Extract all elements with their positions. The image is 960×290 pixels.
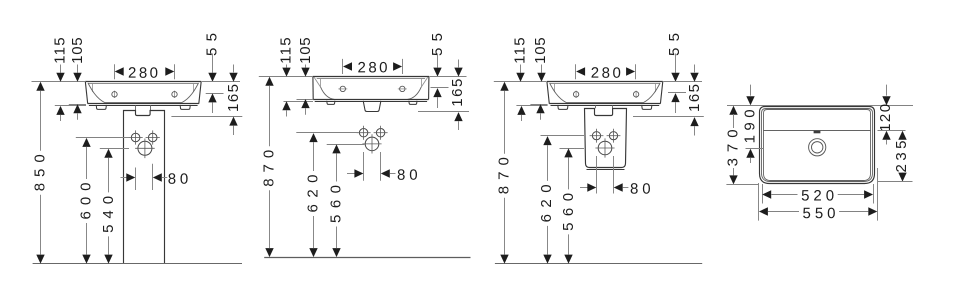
v3 dim 560 line upper bbox=[568, 157, 570, 189]
v3 dim 105 top arrow bbox=[537, 73, 545, 82]
v4 bowl deck line bbox=[763, 130, 871, 132]
svg-text:235: 235 bbox=[893, 141, 910, 173]
v2 ext line 115 bbox=[284, 101, 314, 103]
v1 dim 55 bottom arrow bbox=[208, 93, 216, 102]
v1 floor line bbox=[33, 263, 242, 265]
v3 dim 620 top arrow bbox=[543, 136, 551, 145]
v2 rim inner line bbox=[317, 78, 425, 80]
v4 basin rim inner edge bbox=[764, 110, 871, 181]
v2 dim 115 bottom arrow bbox=[282, 101, 290, 110]
v1 basin left foot bbox=[96, 105, 106, 110]
v1 basin left inner wall bbox=[92, 84, 94, 92]
v2 bowl interior outline bbox=[321, 87, 422, 99]
v1 dim 80 tail left bbox=[121, 177, 127, 179]
v1 trap right line bbox=[150, 105, 152, 110]
v4 drain inner circle bbox=[812, 142, 823, 153]
v2 fixing hole left bbox=[357, 126, 371, 140]
v2 dim 55 tail bottom bbox=[437, 97, 439, 108]
v4 ext line 520 right bbox=[873, 184, 875, 204]
v3 basin bottom lower line bbox=[551, 105, 660, 107]
v3 basin bowl interior outline bbox=[550, 83, 661, 103]
v1 dim 850 top arrow bbox=[36, 82, 44, 91]
v3 basin rim inner line bbox=[550, 83, 661, 85]
v1 pedestal small hole left bbox=[129, 130, 143, 144]
v1 dim 105 tail top bbox=[77, 65, 79, 73]
v2 dim 560 line lower bbox=[336, 227, 338, 249]
v1 dim 115 tail top bbox=[60, 65, 62, 73]
v2 dim 55 bottom arrow bbox=[433, 88, 441, 97]
v2 dim 620 line lower bbox=[313, 216, 315, 248]
svg-text:620: 620 bbox=[304, 175, 321, 213]
v2 dim 870 top arrow bbox=[265, 77, 273, 86]
v1 dim 80 right arrow bbox=[153, 173, 162, 181]
v4 dim 550 right arrow bbox=[868, 207, 877, 215]
v1 rim extension left bbox=[32, 81, 86, 83]
v1 pedestal large hole bbox=[135, 139, 155, 159]
svg-text:165: 165 bbox=[449, 79, 466, 107]
v1 basin left mounting hole bbox=[112, 91, 117, 98]
v2 dim 115 tail bottom bbox=[286, 110, 288, 116]
v3 large hole bbox=[595, 138, 614, 157]
v1 dim 600 line lower bbox=[86, 223, 88, 255]
svg-text:105: 105 bbox=[532, 37, 549, 64]
v2 ext line 165 bbox=[418, 111, 469, 113]
v1 basin bowl interior outline bbox=[88, 83, 199, 103]
v1 basin rim top line bbox=[85, 81, 201, 83]
v3 dim 115 top arrow bbox=[516, 73, 524, 82]
v4 dim 520 left arrow bbox=[762, 190, 771, 198]
v4 dim 550 line right bbox=[839, 211, 868, 213]
v2 bottom line bbox=[313, 99, 428, 101]
v3 ext line 280 left bbox=[575, 64, 577, 79]
v3 dim 165 bottom arrow bbox=[690, 117, 698, 126]
v1 basin right inner wall bbox=[193, 84, 195, 92]
v3 dim 105 bottom arrow bbox=[536, 104, 544, 113]
v3 dim 105 tail bottom bbox=[540, 113, 542, 120]
v4 dim 120 tail top bbox=[886, 85, 888, 96]
v2 dim 105 top arrow bbox=[301, 68, 309, 77]
v4 dim 235 bottom arrow bbox=[898, 173, 906, 182]
v3 small hole right bbox=[607, 129, 621, 143]
svg-text:165: 165 bbox=[225, 84, 242, 112]
v3 ext line 280 right bbox=[635, 64, 637, 79]
v1 dim 165 tail bottom bbox=[233, 126, 235, 135]
v1 dim 105 top arrow bbox=[73, 73, 81, 82]
v4 dim 520 line right bbox=[838, 194, 864, 196]
svg-text:560: 560 bbox=[328, 185, 345, 223]
v1 dim 115 top arrow bbox=[56, 73, 64, 82]
v4 dim 120 top arrow bbox=[882, 96, 890, 105]
v1 dim 850 bottom arrow bbox=[36, 255, 44, 264]
v3 dim 165 top arrow bbox=[690, 73, 698, 82]
v1 dim 55 tail top bbox=[212, 54, 214, 73]
v4 dim 190 bottom arrow bbox=[746, 149, 754, 158]
v4 dim 370 line upper bbox=[733, 114, 735, 128]
svg-text:105: 105 bbox=[297, 37, 314, 64]
v2 ext line 560 bbox=[327, 144, 365, 146]
v4 dim 520 right arrow bbox=[864, 190, 873, 198]
v4 dim 235 line upper bbox=[902, 139, 904, 141]
v3 dim 620 bottom arrow bbox=[543, 255, 551, 264]
v1 dim 80 left tick bbox=[135, 168, 137, 191]
v2 dim 55 top arrow bbox=[433, 68, 441, 77]
svg-text:550: 550 bbox=[802, 205, 835, 222]
v4 dim 120 tail bottom bbox=[886, 140, 888, 145]
v2 right corner bevel bbox=[421, 77, 428, 87]
v1 dim 600 top arrow bbox=[82, 138, 90, 147]
v1 ext line 165 bbox=[171, 116, 242, 118]
v4 ext line 370 bottom bbox=[726, 184, 759, 186]
svg-text:870: 870 bbox=[260, 150, 277, 187]
v1 ext line 540 bbox=[100, 148, 129, 150]
v2 dim 105 bottom arrow bbox=[301, 99, 309, 108]
v3 dim 115 bottom arrow bbox=[517, 106, 525, 115]
v1 dim 540 line lower bbox=[108, 236, 110, 254]
svg-text:540: 540 bbox=[100, 196, 117, 233]
v3 dim 280 right arrow bbox=[626, 67, 635, 75]
v3 basin rim top line bbox=[547, 81, 663, 83]
v1 dim 80 left arrow bbox=[126, 173, 135, 181]
v2 ext line 105 bbox=[297, 99, 314, 101]
svg-text:600: 600 bbox=[77, 183, 94, 220]
v3 rim extension left bbox=[494, 81, 547, 83]
svg-text:165: 165 bbox=[686, 84, 703, 112]
svg-text:620: 620 bbox=[538, 184, 555, 222]
v1 basin bottom lower line bbox=[89, 105, 198, 107]
v1 dim 55 top arrow bbox=[208, 73, 216, 82]
v4 dim 120 bottom arrow bbox=[882, 131, 890, 140]
v4 dim 370 line lower bbox=[733, 168, 735, 175]
v3 dim 870 top arrow bbox=[500, 82, 508, 91]
v2 dim 280 right arrow bbox=[393, 62, 402, 70]
v1 dim 165 tail top bbox=[233, 65, 235, 73]
v2 dim 620 top arrow bbox=[309, 133, 317, 142]
v4 dim 550 left arrow bbox=[759, 207, 768, 215]
v2 dim 165 tail top bbox=[458, 60, 460, 68]
v3 basin left mounting hole bbox=[573, 91, 578, 98]
v3 ext line 55 bbox=[668, 92, 686, 94]
v2 dim 165 bottom arrow bbox=[454, 112, 462, 121]
v2 dim 80 right arrow bbox=[381, 169, 390, 177]
v3 ext line 105 bbox=[530, 104, 547, 106]
v4 faucet hole bbox=[814, 131, 821, 134]
v3 dim 115 tail bottom bbox=[521, 115, 523, 121]
v3 dim 55 top arrow bbox=[671, 73, 679, 82]
v3 basin right mounting hole bbox=[633, 91, 638, 98]
v4 drain outer circle bbox=[809, 139, 826, 156]
v1 ext line 600 bbox=[76, 137, 129, 139]
v1 pedestal small hole right bbox=[146, 130, 160, 144]
v2 dim 115 tail top bbox=[286, 65, 288, 68]
v1 ext line 55 bbox=[206, 93, 224, 95]
v3 dim 115 tail top bbox=[520, 65, 522, 73]
v4 dim 235 line lower bbox=[902, 172, 904, 174]
v2 dim 80 tail right bbox=[390, 173, 396, 175]
v3 ext line 620 bbox=[541, 135, 585, 137]
v4 basin rim middle line bbox=[762, 109, 873, 182]
v3 basin right edge bbox=[660, 82, 662, 104]
v1 dim 165 top arrow bbox=[229, 73, 237, 82]
v1 basin right mounting hole bbox=[172, 91, 177, 98]
v3 dim 55 tail top bbox=[675, 54, 677, 73]
v3 basin right foot bbox=[642, 105, 652, 110]
v3 trap left line bbox=[595, 105, 597, 108]
v2 right mounting hole bbox=[398, 86, 407, 91]
v3 basin bottom line bbox=[549, 103, 660, 105]
v1 dim 540 bottom arrow bbox=[104, 255, 112, 264]
v4 top extension line bbox=[727, 105, 913, 107]
v2 dim 80 right tick bbox=[380, 152, 382, 181]
v3 trap right line bbox=[612, 105, 614, 108]
v3 dim 80 right arrow bbox=[614, 183, 623, 191]
v2 dim 870 line upper bbox=[269, 86, 271, 147]
v3 small hole left bbox=[590, 129, 604, 143]
v2 ext line 280 right bbox=[402, 59, 404, 74]
v3 dim 55 tail bottom bbox=[675, 102, 677, 113]
v2 right edge bbox=[428, 77, 430, 100]
v4 dim 370 bottom arrow bbox=[729, 175, 737, 184]
v4 dim 550 line left bbox=[768, 211, 799, 213]
v4 ext line drain center bbox=[746, 148, 764, 150]
v3 dim 55 bottom arrow bbox=[671, 93, 679, 102]
v1 basin right edge bbox=[199, 82, 201, 104]
v2 dim 560 bottom arrow bbox=[332, 248, 340, 257]
svg-text:190: 190 bbox=[742, 109, 759, 143]
v1 dim 850 line lower bbox=[40, 195, 42, 255]
v1 dim 80 tail right bbox=[162, 177, 168, 179]
svg-text:120: 120 bbox=[877, 104, 894, 132]
v4 ext line 550 left bbox=[758, 183, 760, 221]
v3 basin left inner wall bbox=[554, 84, 556, 92]
v2 rim top line bbox=[313, 76, 429, 78]
v1 dim 280 right arrow bbox=[165, 67, 174, 75]
svg-text:115: 115 bbox=[512, 37, 529, 64]
v3 dim 105 tail top bbox=[541, 65, 543, 73]
v3 dim 870 line upper bbox=[504, 91, 506, 154]
v2 ext line 620 bbox=[296, 132, 358, 134]
v2 fixing hole right bbox=[374, 126, 388, 140]
v4 dim 370 top arrow bbox=[729, 106, 737, 115]
v1 dim 55 tail bottom bbox=[212, 102, 214, 113]
svg-text:870: 870 bbox=[495, 157, 512, 194]
v3 dim 80 right tick bbox=[613, 156, 615, 194]
v3 basin right inner wall bbox=[655, 84, 657, 92]
v1 ext line 280 right bbox=[174, 64, 176, 79]
v3 dim 80 left arrow bbox=[587, 183, 596, 191]
v3 ext line 115 bbox=[516, 105, 547, 107]
v1 dim 105 bottom arrow bbox=[73, 104, 81, 113]
v2 dim 105 tail bottom bbox=[305, 108, 307, 115]
v1 dim 540 line upper bbox=[108, 158, 110, 193]
v4 ext line bowl deck bbox=[878, 130, 906, 132]
v1 dim 115 bottom arrow bbox=[56, 106, 64, 115]
v2 left foot bbox=[327, 101, 335, 105]
v2 left inner wall bbox=[320, 79, 322, 87]
v2 dim 80 left arrow bbox=[354, 169, 363, 177]
svg-text:115: 115 bbox=[277, 37, 294, 64]
v4 ext line 550 right bbox=[877, 168, 879, 221]
v2 dim 80 left tick bbox=[363, 152, 365, 181]
v3 dim 620 line upper bbox=[547, 145, 549, 181]
svg-text:280: 280 bbox=[357, 59, 387, 76]
v1 basin bottom line bbox=[88, 103, 199, 105]
v3 dim 560 line lower bbox=[568, 234, 570, 254]
v2 left edge bbox=[312, 77, 314, 100]
v4 dim 520 line left bbox=[771, 194, 797, 196]
v2 rim extension right bbox=[429, 76, 466, 78]
v1 ext line 105 bbox=[69, 104, 86, 106]
v3 dim 280 left arrow bbox=[576, 67, 585, 75]
v4 dim 190 tail top bbox=[750, 85, 752, 96]
v1 dim 600 bottom arrow bbox=[82, 255, 90, 264]
svg-text:280: 280 bbox=[591, 65, 621, 82]
v3 dim 165 tail bottom bbox=[694, 126, 696, 135]
v3 semi-pedestal bottom lower line bbox=[587, 169, 625, 171]
v3 dim 620 line lower bbox=[547, 226, 549, 255]
v4 ext line 235 bottom bbox=[878, 181, 913, 183]
v1 dim 105 tail bottom bbox=[77, 113, 79, 120]
v1 dim 850 line upper bbox=[40, 91, 42, 151]
v2 dim 165 top arrow bbox=[454, 68, 462, 77]
v2 left corner bevel bbox=[314, 77, 321, 87]
v1 dim 600 line upper bbox=[86, 147, 88, 179]
v1 dim 80 right tick bbox=[152, 164, 154, 190]
v2 ext line 280 left bbox=[342, 59, 344, 74]
v1 dim 165 bottom arrow bbox=[229, 117, 237, 126]
v2 dim 620 line upper bbox=[313, 142, 315, 171]
v2 dim 870 line lower bbox=[269, 190, 271, 248]
v2 dim 560 line upper bbox=[336, 153, 338, 181]
v2 right foot bbox=[409, 101, 417, 105]
svg-text:850: 850 bbox=[32, 154, 49, 191]
v4 dim 190 tail bottom bbox=[750, 158, 752, 163]
v2 dim 620 bottom arrow bbox=[309, 248, 317, 257]
v3 dim 80 tail right bbox=[623, 187, 629, 189]
v3 ext line 165 bbox=[633, 116, 704, 118]
v1 rim extension right bbox=[202, 81, 241, 83]
v2 dim 560 top arrow bbox=[332, 144, 340, 153]
v2 dim 105 tail top bbox=[305, 65, 307, 68]
svg-text:370: 370 bbox=[725, 129, 742, 166]
v1 dim 280 left arrow bbox=[115, 67, 124, 75]
v3 dim 560 top arrow bbox=[564, 148, 572, 157]
v2 bottom lower line bbox=[315, 101, 427, 103]
v2 dim 870 bottom arrow bbox=[265, 248, 273, 257]
v3 semi-pedestal outline bbox=[585, 109, 627, 168]
v3 dim 80 tail left bbox=[580, 187, 588, 189]
svg-text:115: 115 bbox=[52, 37, 69, 64]
v1 ext line 280 left bbox=[114, 64, 116, 79]
v3 floor line bbox=[495, 263, 702, 265]
v2 floor line bbox=[264, 257, 470, 259]
v2 dim 280 left arrow bbox=[343, 62, 352, 70]
v2 dim 115 top arrow bbox=[282, 68, 290, 77]
v2 trap cover bbox=[363, 101, 381, 112]
v1 basin right foot bbox=[180, 105, 190, 110]
v3 rim extension right bbox=[663, 81, 702, 83]
v3 dim 870 bottom arrow bbox=[500, 255, 508, 264]
v4 dim 190 top arrow bbox=[746, 96, 754, 105]
v3 basin left foot bbox=[558, 105, 568, 110]
v2 dim 165 tail bottom bbox=[458, 121, 460, 130]
v2 dim 80 tail left bbox=[347, 173, 355, 175]
v3 dim 165 tail top bbox=[694, 65, 696, 73]
v3 dim 560 bottom arrow bbox=[564, 255, 572, 264]
v4 basin outer rim bbox=[760, 107, 875, 184]
v1 dim 115 tail bottom bbox=[60, 115, 62, 121]
v1 basin left edge bbox=[85, 82, 87, 104]
v3 dim 870 line lower bbox=[504, 198, 506, 255]
svg-text:105: 105 bbox=[69, 37, 86, 64]
v3 dim 80 left tick bbox=[596, 156, 598, 194]
v2 left mounting hole bbox=[338, 86, 347, 91]
v1 basin rim inner line bbox=[88, 83, 199, 85]
v1 dim 540 top arrow bbox=[104, 149, 112, 158]
v1 pedestal outline bbox=[124, 111, 165, 264]
v1 trap left line bbox=[135, 105, 137, 110]
v4 ext line 520 left bbox=[762, 184, 764, 204]
v4 dim 235 top arrow bbox=[898, 131, 906, 140]
svg-text:280: 280 bbox=[128, 65, 158, 82]
v2 dim 55 tail top bbox=[437, 54, 439, 68]
svg-text:520: 520 bbox=[801, 187, 834, 204]
svg-text:560: 560 bbox=[560, 193, 577, 231]
v3 ext line 560 bbox=[560, 148, 585, 150]
v2 right inner wall bbox=[421, 79, 423, 87]
v3 basin left edge bbox=[547, 82, 549, 104]
v2 drain hole bbox=[362, 134, 381, 153]
v2 ext line 55 bbox=[431, 87, 449, 89]
v2 rim extension left bbox=[259, 76, 313, 78]
v1 ext line 115 bbox=[55, 105, 86, 107]
